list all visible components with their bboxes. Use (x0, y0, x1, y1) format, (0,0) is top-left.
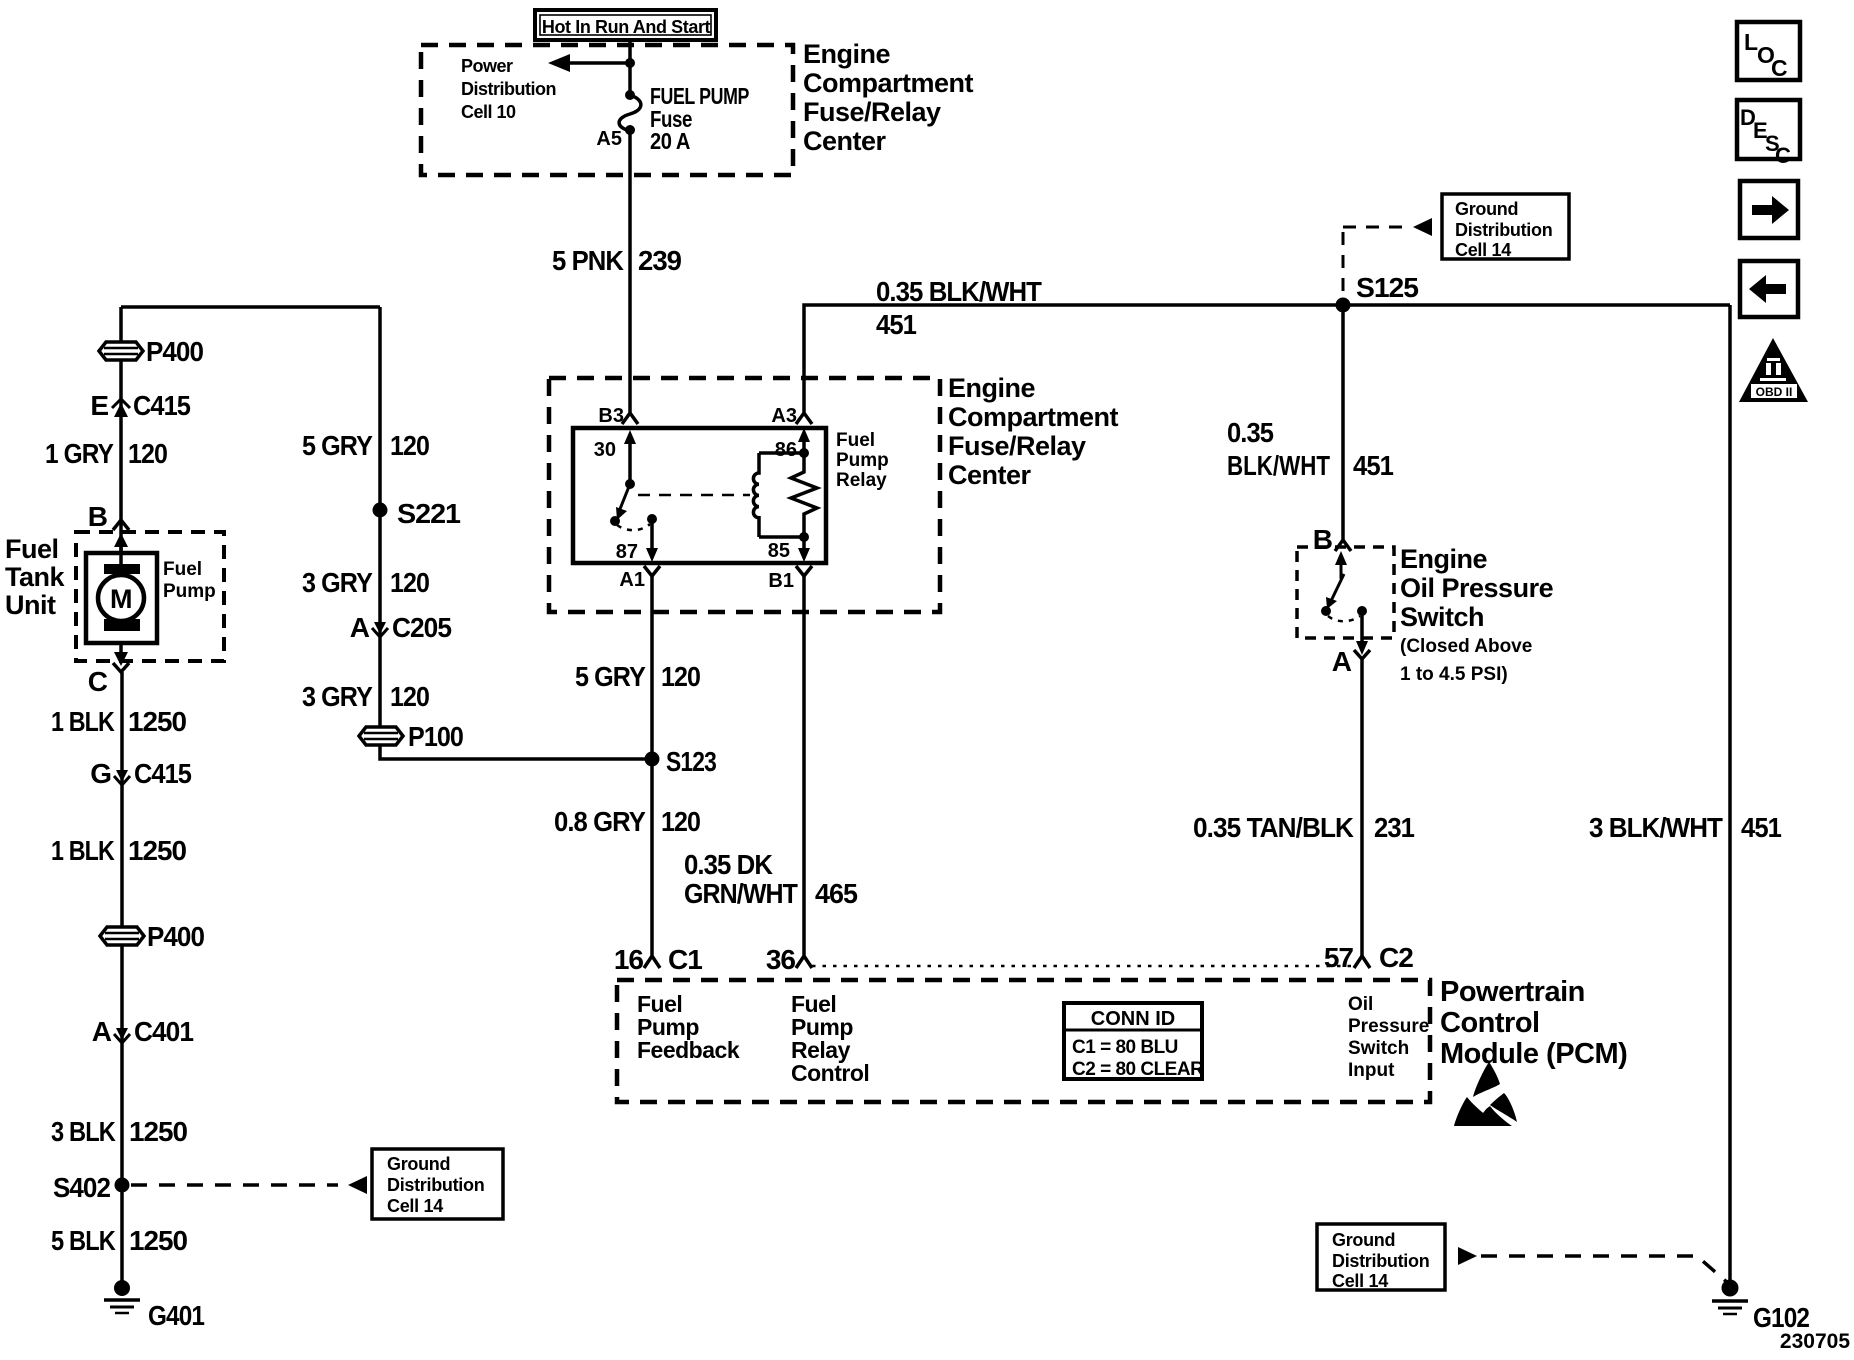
label: FUEL PUMP Fuse 20 A (650, 83, 749, 154)
arrow out of pump and pin C connector (88, 643, 129, 697)
grommet P400 (lower) (100, 921, 204, 952)
svg-text:A: A (1332, 646, 1352, 677)
wire 0.35 BLK/WHT 451 (S125 down to oil switch B) (1341, 305, 1345, 540)
label: 3 BLK/WHT 451 (1589, 812, 1781, 843)
label: Engine Compartment Fuse/Relay Center (top) (803, 39, 974, 156)
svg-text:1 BLK: 1 BLK (51, 835, 115, 866)
svg-text:Center: Center (803, 126, 887, 156)
fuel pump motor M (86, 553, 157, 643)
oil pressure switch pin A arrow and connector (1332, 611, 1370, 677)
ground G401 (104, 1280, 204, 1331)
navigation icon right arrow (1740, 181, 1798, 238)
svg-text:Distribution: Distribution (387, 1175, 484, 1195)
svg-text:1250: 1250 (129, 1225, 187, 1256)
svg-text:P100: P100 (408, 721, 463, 752)
grommet P100 (359, 721, 463, 752)
svg-text:231: 231 (1374, 812, 1414, 843)
label: 1 BLK 1250 (second) (51, 835, 186, 866)
svg-text:Power: Power (461, 56, 513, 76)
svg-text:Oil: Oil (1348, 994, 1373, 1015)
label: Fuel Pump Feedback (637, 991, 740, 1063)
svg-text:1250: 1250 (128, 706, 186, 737)
svg-text:0.35: 0.35 (1227, 417, 1273, 448)
engine compartment fuse/relay center dashed box (relay) (549, 378, 940, 612)
dotted pin tie line 36 to 57 (812, 965, 1352, 968)
svg-text:120: 120 (128, 438, 167, 469)
svg-text:36: 36 (766, 944, 796, 975)
svg-text:Tank: Tank (5, 562, 65, 592)
svg-text:Distribution: Distribution (461, 79, 556, 99)
node: junction for power distribution arrow (625, 58, 635, 68)
label: 5 BLK 1250 (51, 1225, 187, 1256)
splice S125 (1336, 272, 1419, 313)
svg-text:30: 30 (594, 439, 616, 461)
svg-text:E: E (90, 390, 108, 421)
label: diagram number 230705 (1780, 1330, 1850, 1353)
svg-text:BLK/WHT: BLK/WHT (1227, 450, 1330, 481)
svg-text:G102: G102 (1753, 1302, 1809, 1333)
splice S221 (373, 498, 461, 529)
svg-text:1250: 1250 (129, 1116, 187, 1147)
svg-text:Fuel: Fuel (836, 430, 875, 451)
svg-text:16: 16 (614, 944, 644, 975)
svg-text:B: B (1313, 524, 1332, 555)
wire from P100 to S123 (380, 745, 652, 759)
svg-text:P400: P400 (146, 336, 203, 367)
svg-text:120: 120 (390, 681, 429, 712)
ground distribution cell 14 box (top right) (1442, 194, 1569, 260)
svg-text:Compartment: Compartment (948, 402, 1119, 432)
pin B connector (fuel tank unit) (88, 501, 129, 532)
svg-text:C2: C2 (1379, 942, 1413, 973)
oil pressure switch contacts (1321, 551, 1367, 621)
svg-text:A1: A1 (619, 569, 645, 591)
PCM pin 16 C1 (614, 944, 702, 975)
svg-text:Switch: Switch (1348, 1038, 1409, 1059)
svg-text:GRN/WHT: GRN/WHT (684, 878, 798, 909)
svg-text:Feedback: Feedback (637, 1037, 740, 1063)
svg-text:Control: Control (1440, 1007, 1540, 1039)
svg-text:C205: C205 (392, 612, 451, 643)
svg-text:3 GRY: 3 GRY (302, 681, 373, 712)
wire from relay B1 down to PCM pin 36 (802, 576, 806, 956)
svg-text:5 GRY: 5 GRY (575, 661, 646, 692)
power feed label box: Hot In Run And Start (535, 10, 716, 40)
relay pin 86 arrow (775, 428, 810, 461)
svg-text:Relay: Relay (836, 470, 887, 491)
pin B1 connector (768, 566, 812, 592)
svg-text:C: C (1775, 143, 1791, 168)
svg-text:0.35 TAN/BLK: 0.35 TAN/BLK (1193, 812, 1354, 843)
svg-text:85: 85 (768, 540, 790, 562)
svg-text:3 BLK/WHT: 3 BLK/WHT (1589, 812, 1723, 843)
svg-text:S125: S125 (1356, 272, 1418, 303)
svg-text:S123: S123 (666, 746, 716, 777)
svg-text:Ground: Ground (1455, 199, 1518, 219)
svg-text:57: 57 (1324, 942, 1354, 973)
ground distribution cell 14 box (bottom right) (1317, 1224, 1445, 1291)
svg-text:B: B (88, 501, 107, 532)
relay pin 85 arrow (768, 537, 810, 562)
svg-text:OBD II: OBD II (1756, 385, 1793, 399)
engine compartment fuse/relay center dashed box (top) (421, 45, 793, 175)
svg-text:120: 120 (390, 567, 429, 598)
svg-text:Unit: Unit (5, 590, 56, 620)
pin B3 connector (598, 405, 638, 427)
label: Engine Compartment Fuse/Relay Center (relay) (948, 373, 1119, 490)
relay K: fuel pump relay outline (573, 428, 826, 563)
ground G102 (1712, 1280, 1809, 1334)
splice S402 (53, 1172, 130, 1203)
svg-text:A: A (92, 1016, 112, 1047)
svg-text:0.35 BLK/WHT: 0.35 BLK/WHT (876, 276, 1042, 307)
svg-text:Fuse/Relay: Fuse/Relay (803, 97, 941, 127)
label: 0.35 BLK/WHT 451 (right) (1227, 417, 1393, 481)
label: 1 BLK 1250 (upper) (51, 706, 186, 737)
svg-text:B3: B3 (598, 405, 624, 427)
svg-text:Engine: Engine (948, 373, 1035, 403)
PCM pin 57 C2 (1324, 942, 1413, 973)
relay pin 30 arrow (594, 430, 636, 484)
svg-text:86: 86 (775, 439, 797, 461)
svg-text:Oil Pressure: Oil Pressure (1400, 573, 1554, 603)
svg-text:Engine: Engine (803, 39, 890, 69)
label: 5 GRY 120 (below A1) (575, 661, 700, 692)
pin A1 connector (619, 566, 660, 591)
svg-text:239: 239 (638, 245, 681, 276)
svg-text:A: A (350, 612, 370, 643)
svg-text:5 PNK: 5 PNK (552, 245, 624, 276)
svg-text:0.35 DK: 0.35 DK (684, 849, 773, 880)
conn id table (1064, 1003, 1204, 1080)
svg-text:1250: 1250 (128, 835, 186, 866)
wire 3 BLK/WHT 451 (right edge down to G102) (1728, 305, 1732, 1280)
dashed reference line from S402 (131, 1176, 367, 1194)
label: Power Distribution Cell 10 (461, 56, 556, 122)
svg-text:Cell 14: Cell 14 (387, 1196, 443, 1216)
navigation icon left arrow (1740, 261, 1798, 317)
svg-text:Fuel: Fuel (5, 534, 59, 564)
wire 0.8 GRY 120 (S123 down to PCM pin 16) (650, 759, 654, 956)
svg-text:Fuse/Relay: Fuse/Relay (948, 431, 1086, 461)
wire from Hot box to fuse (628, 40, 632, 95)
splice S123 (645, 746, 717, 777)
svg-text:Cell 10: Cell 10 (461, 102, 516, 122)
svg-text:C1: C1 (668, 944, 702, 975)
svg-text:3 BLK: 3 BLK (51, 1116, 116, 1147)
relay switch contact dots and dashed throw arc (610, 514, 657, 530)
label: Fuel Pump Relay (836, 430, 889, 491)
ESD sensitivity symbol (1454, 1062, 1517, 1126)
svg-text:3 GRY: 3 GRY (302, 567, 373, 598)
svg-text:M: M (110, 584, 132, 614)
svg-text:(Closed Above: (Closed Above (1400, 636, 1532, 657)
wire 0.35 BLK/WHT 451 (long horizontal) (804, 305, 1730, 413)
label: 0.8 GRY 120 (554, 806, 700, 837)
OBD II symbol (1739, 338, 1808, 402)
relay coil actuation dashed link (638, 494, 750, 497)
svg-text:Powertrain: Powertrain (1440, 976, 1585, 1008)
label: Fuel Pump (163, 559, 216, 602)
svg-text:87: 87 (616, 541, 638, 563)
svg-text:L: L (1744, 29, 1758, 55)
label: Fuel Tank Unit (5, 534, 65, 620)
svg-text:Distribution: Distribution (1455, 220, 1552, 240)
svg-text:CONN ID: CONN ID (1091, 1008, 1175, 1030)
label: 3 BLK 1250 (51, 1116, 187, 1147)
connector C415 pin G (90, 758, 191, 789)
svg-text:A5: A5 (596, 128, 622, 150)
engine oil pressure switch dashed box (1297, 547, 1394, 638)
navigation icon DESC (1737, 100, 1800, 168)
svg-text:G: G (90, 758, 111, 789)
svg-text:Pump: Pump (836, 450, 889, 471)
pin A3 connector (771, 405, 812, 427)
grommet P400 (upper) (99, 336, 203, 367)
wire 5 PNK 239 (fuse to relay pin B3) (628, 130, 632, 414)
svg-text:1 BLK: 1 BLK (51, 706, 115, 737)
svg-text:120: 120 (390, 430, 429, 461)
svg-text:C401: C401 (134, 1016, 193, 1047)
svg-text:Pressure: Pressure (1348, 1016, 1429, 1037)
wire 1 BLK 1250 (tank to G401) (120, 672, 124, 1283)
PCM dashed box (617, 980, 1430, 1102)
label: 1 GRY 120 (45, 438, 167, 469)
svg-text:A3: A3 (771, 405, 797, 427)
fuel tank unit dashed box (76, 532, 224, 661)
svg-text:Hot In Run And Start: Hot In Run And Start (542, 17, 711, 37)
dashed reference from S125 to ground distribution (1343, 218, 1432, 300)
svg-text:1 to 4.5 PSI): 1 to 4.5 PSI) (1400, 664, 1508, 685)
svg-text:C2 = 80 CLEAR: C2 = 80 CLEAR (1072, 1059, 1204, 1080)
dashed reference line to G102 (1458, 1247, 1729, 1284)
wire 5 GRY 120 (relay A1 down to S123) (650, 576, 654, 759)
svg-text:5 GRY: 5 GRY (302, 430, 373, 461)
label: 5 GRY 120 (middle branch) (302, 430, 429, 461)
relay pin 87 arrow (616, 519, 658, 563)
svg-text:Fuel: Fuel (163, 559, 202, 580)
svg-text:C415: C415 (134, 758, 191, 789)
svg-text:C415: C415 (133, 390, 190, 421)
label: fuse pin A5 (596, 128, 622, 150)
svg-text:Control: Control (791, 1060, 869, 1086)
label: Engine Oil Pressure Switch (1400, 544, 1554, 685)
label: Oil Pressure Switch Input (1348, 994, 1429, 1081)
svg-text:Cell 14: Cell 14 (1332, 1271, 1388, 1291)
label: 3 GRY 120 (above C205) (302, 567, 429, 598)
power distribution reference arrow (548, 54, 630, 72)
svg-text:Ground: Ground (387, 1154, 450, 1174)
label: 5 PNK 239 (552, 245, 681, 276)
svg-text:C1 = 80 BLU: C1 = 80 BLU (1072, 1037, 1178, 1058)
svg-text:B1: B1 (768, 570, 794, 592)
svg-text:Ground: Ground (1332, 1230, 1395, 1250)
svg-text:1 GRY: 1 GRY (45, 438, 114, 469)
svg-text:465: 465 (815, 878, 857, 909)
connector C415 pin E (90, 390, 190, 421)
svg-text:451: 451 (1353, 450, 1393, 481)
svg-text:Distribution: Distribution (1332, 1251, 1429, 1271)
fuse: FUEL PUMP Fuse 20 A (619, 90, 641, 135)
svg-text:20 A: 20 A (650, 128, 690, 154)
wire: top left horizontal (pump feed) (121, 305, 380, 309)
label: Fuel Pump Relay Control (791, 991, 869, 1086)
PCM pin 36 (766, 944, 812, 975)
wire: middle branch vertical (5 GRY 120) (378, 307, 382, 727)
svg-text:C: C (1771, 55, 1788, 81)
svg-text:5 BLK: 5 BLK (51, 1225, 116, 1256)
svg-text:120: 120 (661, 661, 700, 692)
relay switch arm (616, 479, 635, 520)
svg-text:Compartment: Compartment (803, 68, 974, 98)
svg-text:P400: P400 (147, 921, 204, 952)
label: 0.35 TAN/BLK 231 (1193, 812, 1414, 843)
svg-text:230705: 230705 (1780, 1330, 1850, 1353)
arrow into pump (114, 533, 128, 565)
svg-text:0.8 GRY: 0.8 GRY (554, 806, 646, 837)
svg-text:G401: G401 (148, 1300, 204, 1331)
label: 0.35 BLK/WHT 451 (top) (876, 276, 1042, 340)
wire: left vertical to fuel tank (119, 307, 123, 553)
relay coil (winding and resistance) (753, 448, 817, 542)
svg-text:120: 120 (661, 806, 700, 837)
svg-text:C: C (88, 666, 108, 697)
svg-text:S221: S221 (397, 498, 460, 529)
label: 3 GRY 120 (below C205) (302, 681, 429, 712)
svg-text:Cell 14: Cell 14 (1455, 240, 1511, 260)
svg-text:Engine: Engine (1400, 544, 1487, 574)
navigation icon LOC (1737, 22, 1800, 81)
svg-text:451: 451 (876, 309, 916, 340)
svg-text:451: 451 (1741, 812, 1781, 843)
label: 0.35 DK GRN/WHT 465 (684, 849, 857, 909)
ground distribution cell 14 box (left) (372, 1149, 503, 1219)
svg-text:Center: Center (948, 460, 1032, 490)
pin B connector (oil pressure switch) (1313, 524, 1351, 555)
connector C205 pin A (350, 612, 452, 643)
svg-text:S402: S402 (53, 1172, 110, 1203)
svg-text:Module (PCM): Module (PCM) (1440, 1038, 1627, 1070)
label: Powertrain Control Module (PCM) (1440, 976, 1627, 1070)
wire 0.35 TAN/BLK 231 (switch A to PCM 57) (1360, 659, 1364, 956)
connector C401 pin A (92, 1016, 194, 1047)
svg-text:Switch: Switch (1400, 602, 1484, 632)
svg-text:Input: Input (1348, 1060, 1395, 1081)
svg-text:Pump: Pump (163, 581, 216, 602)
